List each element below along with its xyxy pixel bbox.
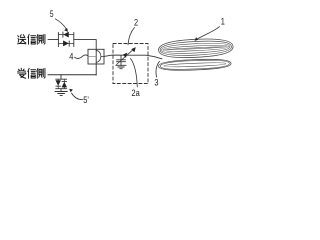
wire: receive line xyxy=(48,74,96,76)
svg-text:2: 2 xyxy=(134,16,138,27)
coil turn group B xyxy=(158,58,231,71)
internal branch curve xyxy=(96,50,101,62)
wire: diode pair to corner, corner down into box 4 xyxy=(74,40,96,50)
duplexer box 4 xyxy=(88,49,104,64)
variable capacitor 2a: stub to ground xyxy=(120,62,122,65)
label 2a with leader xyxy=(131,59,140,99)
label 5' with arrow xyxy=(69,89,89,105)
wire: box 4 to coil, through dashed box xyxy=(104,55,162,59)
側 xyxy=(37,34,45,44)
variable arrow through capacitor (double head) xyxy=(117,47,136,64)
wire: box 4 bottom to receive line xyxy=(95,64,97,75)
svg-text:2a: 2a xyxy=(132,87,140,98)
label 2 with leader xyxy=(128,16,138,44)
variable capacitor 2a: plates xyxy=(117,59,126,61)
側 xyxy=(37,68,45,78)
ground (below 5') xyxy=(55,92,67,96)
label 4 with wavy leader xyxy=(69,51,88,62)
送 xyxy=(18,35,26,44)
diode pair 5 (anti-parallel diodes, horizontal) xyxy=(58,32,73,47)
信 xyxy=(28,34,36,44)
svg-text:5: 5 xyxy=(50,9,54,19)
svg-text:4: 4 xyxy=(69,51,73,62)
svg-text:5’: 5’ xyxy=(83,94,89,105)
wire: transmit line from text to diode pair xyxy=(48,39,58,41)
wire: branch down to protection diodes 5' xyxy=(60,75,62,79)
信 xyxy=(28,68,36,78)
antenna coil 1 (two groups of nested flat rings) xyxy=(158,37,233,71)
variable capacitor 2a: branch xyxy=(120,56,122,60)
diode pair 5' (anti-parallel diodes, vertical) xyxy=(56,79,67,89)
matching circuit dashed box 2 xyxy=(113,44,148,84)
internal through line xyxy=(95,49,97,64)
label 受信側 (receive side) xyxy=(18,68,45,78)
受 xyxy=(18,68,26,78)
label 1 with arrow xyxy=(195,15,226,40)
ground (in box 2) xyxy=(116,65,126,68)
label 3 with leader xyxy=(154,61,159,87)
label 5 with arrow xyxy=(50,9,68,32)
wire: to ground xyxy=(60,89,62,92)
label 送信側 (transmit side) xyxy=(18,34,45,44)
coil turn group A xyxy=(158,37,233,59)
left stub xyxy=(88,55,96,57)
svg-text:1: 1 xyxy=(221,15,225,26)
svg-text:3: 3 xyxy=(154,76,158,87)
